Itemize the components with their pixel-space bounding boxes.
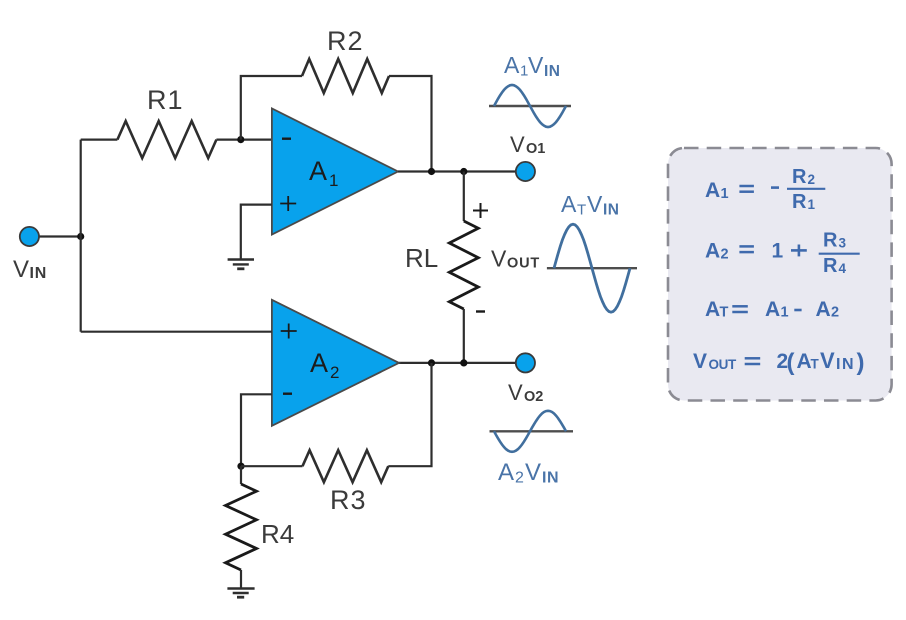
svg-text:V: V xyxy=(525,459,541,486)
svg-text:V: V xyxy=(587,191,603,217)
wire A2 minus input down to R3/R4 node xyxy=(241,394,272,466)
svg-text:1: 1 xyxy=(329,171,338,190)
wire R4 top lead xyxy=(240,466,242,484)
svg-text:R: R xyxy=(823,255,838,277)
label VIN xyxy=(13,256,47,283)
A1 plus pin mark xyxy=(280,196,296,211)
node VO2 terminal xyxy=(516,353,535,372)
svg-text:A: A xyxy=(705,240,720,263)
wire RL bottom lead xyxy=(463,309,465,363)
label A1VIN (top wave) xyxy=(504,52,561,80)
svg-text:2: 2 xyxy=(330,363,339,382)
svg-text:A: A xyxy=(705,298,720,321)
svg-text:IN: IN xyxy=(542,470,559,487)
svg-text:R: R xyxy=(792,166,807,188)
label VO1 xyxy=(510,132,545,157)
svg-text:OUT: OUT xyxy=(709,357,737,372)
svg-text:A: A xyxy=(765,298,780,321)
junction output/R2 xyxy=(428,168,435,175)
svg-text:4: 4 xyxy=(839,261,847,276)
formula A1 = -R2/R1 xyxy=(705,166,825,213)
svg-text:A: A xyxy=(309,156,327,186)
A2 minus pin mark xyxy=(283,393,292,395)
wire R3 up to A2 output xyxy=(388,363,431,466)
ground (A1 +) xyxy=(228,260,254,269)
wire node to R3 xyxy=(241,465,303,467)
svg-text:A: A xyxy=(504,52,520,78)
svg-text:A: A xyxy=(310,348,328,378)
svg-text:(: ( xyxy=(787,349,795,376)
wire A1 output to VO1 xyxy=(398,170,516,172)
wire up to R2 xyxy=(241,76,302,140)
svg-text:1: 1 xyxy=(772,240,784,263)
svg-text:V: V xyxy=(693,350,707,373)
plus mark above RL xyxy=(473,203,488,218)
wire R1 to A1 minus input xyxy=(216,139,272,141)
svg-text:R: R xyxy=(823,230,838,252)
svg-text:IN: IN xyxy=(30,265,48,282)
wire left vertical bus xyxy=(80,140,82,332)
node VO1 terminal xyxy=(516,162,535,181)
svg-text:R1: R1 xyxy=(147,85,184,115)
svg-text:T: T xyxy=(577,202,586,219)
svg-text:OUT: OUT xyxy=(507,256,540,272)
svg-text:V: V xyxy=(510,132,525,157)
junction at VIN column xyxy=(77,233,84,240)
svg-text:V: V xyxy=(820,348,835,373)
svg-text:T: T xyxy=(720,305,729,321)
svg-text:O1: O1 xyxy=(526,141,545,157)
resistor R2 xyxy=(302,59,389,93)
A2 plus pin mark xyxy=(281,324,297,339)
svg-text:IN: IN xyxy=(603,202,620,219)
svg-text:V: V xyxy=(13,256,29,283)
minus mark below RL xyxy=(476,310,485,312)
label A2 xyxy=(310,348,339,382)
svg-text:R4: R4 xyxy=(261,519,294,549)
axis line of middle wave xyxy=(547,267,637,269)
sine wave ATVIN xyxy=(554,224,630,312)
resistor R1 xyxy=(117,121,216,158)
svg-text:IN: IN xyxy=(544,63,561,80)
formula VOUT = 2(ATVIN) xyxy=(693,348,865,376)
svg-text:A: A xyxy=(498,459,514,486)
svg-text:R: R xyxy=(792,191,807,213)
formula box xyxy=(668,148,892,401)
junction R1/R2 node xyxy=(237,136,244,143)
svg-text:A: A xyxy=(816,298,831,321)
label ATVIN (middle wave) xyxy=(561,191,620,219)
svg-text:A: A xyxy=(797,350,812,373)
svg-text:2: 2 xyxy=(721,247,729,263)
label A1 xyxy=(309,156,338,190)
svg-text:V: V xyxy=(528,52,544,78)
wire A1 plus input to ground xyxy=(241,205,272,259)
wire R4 bottom lead xyxy=(240,570,242,588)
label A2VIN (bottom wave) xyxy=(498,459,559,487)
label VOUT xyxy=(491,246,540,272)
label VO2 xyxy=(508,380,543,405)
wire bus to A2 plus input xyxy=(81,331,272,333)
svg-text:V: V xyxy=(508,380,523,405)
svg-text:2: 2 xyxy=(515,470,524,487)
node VIN terminal xyxy=(20,227,39,246)
junction R3/R4 node xyxy=(237,463,244,470)
wire to R1 xyxy=(81,139,118,141)
axis line of bottom wave xyxy=(490,430,574,432)
wire R2 down to output node xyxy=(389,76,432,172)
resistor RL xyxy=(449,221,478,309)
svg-text:RL: RL xyxy=(405,243,438,273)
wire VIN stub xyxy=(39,235,81,237)
junction output/RL top xyxy=(460,168,467,175)
resistor R3 xyxy=(303,450,389,482)
svg-text:IN: IN xyxy=(836,356,855,373)
op-amp A1 xyxy=(272,109,398,235)
svg-text:A: A xyxy=(705,179,720,202)
svg-text:1: 1 xyxy=(808,197,816,212)
svg-text:2: 2 xyxy=(808,172,816,187)
axis line of top wave xyxy=(489,105,571,107)
svg-text:2: 2 xyxy=(831,305,839,321)
svg-text:A: A xyxy=(561,191,577,217)
op-amp A2 xyxy=(272,300,399,426)
resistor R4 xyxy=(226,484,257,570)
wire A2 output to VO2 xyxy=(399,362,516,364)
A1 minus pin mark xyxy=(282,137,291,139)
svg-text:O2: O2 xyxy=(524,389,543,405)
wire RL top lead xyxy=(463,172,465,222)
svg-text:3: 3 xyxy=(839,236,847,251)
svg-text:): ) xyxy=(857,349,865,376)
svg-text:R2: R2 xyxy=(327,26,364,56)
formula AT = A1 - A2 xyxy=(705,298,839,321)
svg-text:T: T xyxy=(811,357,820,372)
formula A2 = 1 + R3/R4 xyxy=(705,230,860,278)
junction output/R3 xyxy=(428,359,435,366)
svg-text:V: V xyxy=(491,246,507,272)
sine wave A1VIN xyxy=(494,85,566,127)
junction output/RL bottom xyxy=(460,359,467,366)
svg-text:1: 1 xyxy=(781,305,789,321)
svg-text:1: 1 xyxy=(721,186,729,202)
svg-text:R3: R3 xyxy=(330,485,367,515)
ground (R4) xyxy=(227,589,254,598)
sine wave A2VIN (inverted) xyxy=(494,411,566,452)
